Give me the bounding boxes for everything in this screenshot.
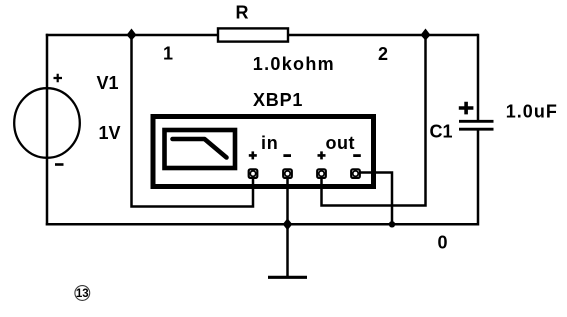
capacitor C1 <box>459 121 494 129</box>
junction ground net at in- <box>283 218 293 230</box>
out- polarity mark <box>353 154 361 157</box>
V1 minus sign <box>55 163 64 166</box>
C1 polarity plus <box>459 102 474 115</box>
in+ polarity mark <box>249 151 257 159</box>
svg-text:0: 0 <box>438 233 448 253</box>
svg-text:2: 2 <box>378 44 388 64</box>
terminal in+ <box>249 169 258 178</box>
bode plotter XBP1 body <box>153 117 374 187</box>
svg-text:XBP1: XBP1 <box>253 90 303 110</box>
wire top net from V1 to C1 <box>46 34 478 37</box>
svg-text:1.0uF: 1.0uF <box>506 101 558 121</box>
svg-text:out: out <box>326 133 355 153</box>
XBP1 display screen <box>165 130 236 168</box>
resistor R <box>218 28 288 41</box>
XBP1 display response curve <box>173 139 227 158</box>
wire out+ to node 2 <box>322 35 426 206</box>
V1 plus sign <box>54 74 63 82</box>
wire bottom net 0 <box>46 223 478 226</box>
terminal in- <box>283 169 292 178</box>
svg-text:V1: V1 <box>97 73 119 93</box>
wire in- drop to ground net <box>286 176 289 224</box>
junction node 1 <box>127 29 137 41</box>
wire C1 bottom lead <box>477 129 480 225</box>
svg-text:R: R <box>236 3 249 23</box>
ground <box>268 224 307 277</box>
terminal out+ <box>317 169 326 178</box>
wire C1 top lead <box>477 34 480 122</box>
annotation circled 13 <box>75 286 90 301</box>
wire left branch through V1 <box>46 34 49 226</box>
terminal out- <box>351 169 360 178</box>
svg-text:13: 13 <box>76 288 89 300</box>
voltage source V1 <box>14 88 80 158</box>
junction ground net at out- <box>389 221 395 227</box>
svg-text:C1: C1 <box>430 122 453 142</box>
svg-text:1: 1 <box>163 44 173 64</box>
out+ polarity mark <box>318 151 326 159</box>
in- polarity mark <box>283 154 291 157</box>
svg-text:in: in <box>261 133 279 153</box>
wire node 1 drop to in+ <box>132 35 254 207</box>
svg-text:1V: 1V <box>99 123 121 143</box>
wire out- to bottom net <box>359 173 392 225</box>
svg-text:1.0kohm: 1.0kohm <box>253 54 335 74</box>
junction node 2 <box>421 29 431 41</box>
